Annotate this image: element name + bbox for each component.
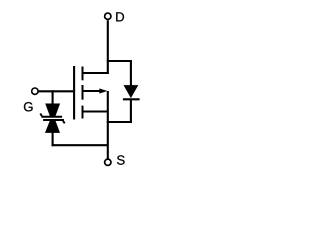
terminal D	[105, 13, 111, 19]
wire zener top stem	[52, 90, 54, 104]
MOSFET Q1 channel bottom segment	[82, 106, 84, 119]
wire drain lead (MOSFET top lead)	[82, 72, 109, 74]
zener Z2 cathode hook	[63, 121, 65, 124]
diode D1 cathode bar	[123, 98, 140, 100]
wire zener bottom stem	[52, 132, 54, 146]
zener Z2 triangle (pointing up)	[45, 120, 60, 133]
zener Z1 triangle (pointing down)	[45, 104, 60, 117]
wire source vertical	[107, 91, 109, 159]
MOSFET Q1 body arrowhead	[100, 89, 107, 94]
MOSFET Q1 gate bar	[73, 66, 75, 120]
wire diode return to source	[107, 121, 132, 123]
wire gate lead	[38, 90, 74, 92]
zener Z2 cathode bar	[43, 119, 64, 121]
MOSFET Q1 channel top segment	[82, 67, 84, 81]
MOSFET Q1 channel middle segment	[82, 85, 84, 100]
wire body lead (with arrow)	[83, 90, 101, 92]
wire diode cathode stem	[130, 99, 132, 123]
wire drain-to-diode branch	[107, 60, 132, 62]
terminal G	[32, 88, 38, 94]
label G	[24, 102, 33, 111]
wire source lead (MOSFET bottom lead)	[83, 110, 108, 112]
diode D1 body-diode triangle	[124, 85, 138, 98]
wire drain stem (D terminal to drain lead)	[107, 20, 109, 74]
label D	[116, 12, 124, 21]
label S	[117, 155, 125, 164]
wire diode anode stem	[130, 60, 132, 86]
zener Z1 cathode hook	[40, 114, 42, 117]
zener Z1 cathode bar	[41, 116, 62, 118]
terminal S	[105, 159, 111, 165]
wire source rail	[52, 144, 108, 146]
